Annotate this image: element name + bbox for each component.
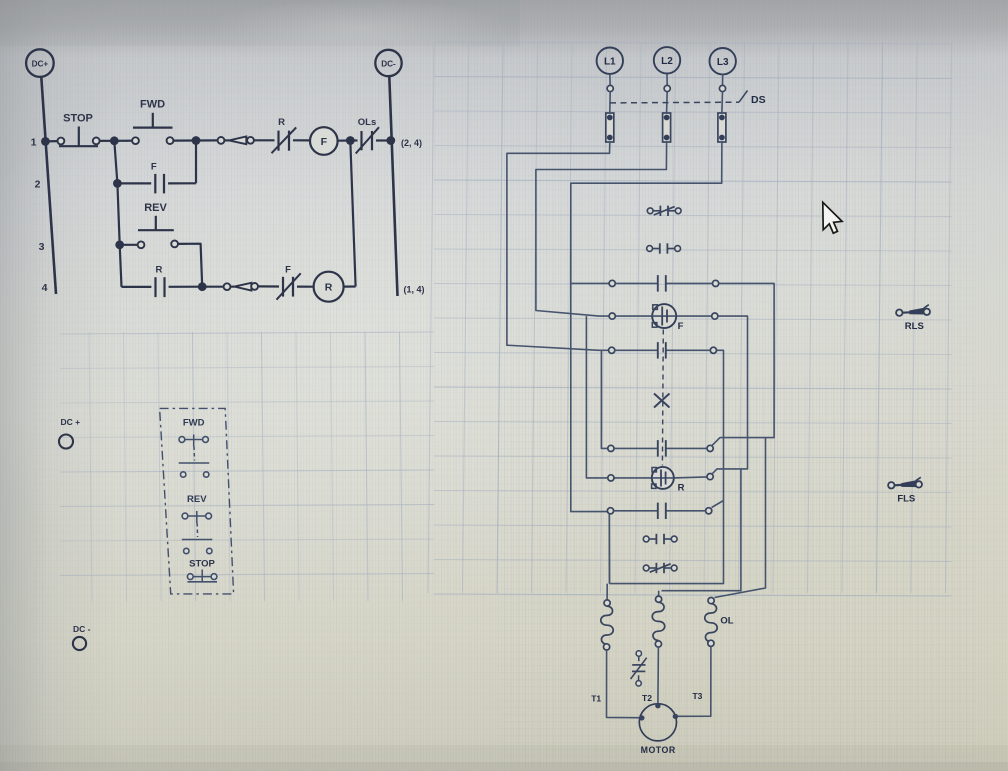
svg-text:OLs: OLs <box>358 117 376 128</box>
svg-text:F: F <box>151 162 157 173</box>
svg-text:DC-: DC- <box>381 60 396 69</box>
svg-text:REV: REV <box>144 202 167 214</box>
svg-text:FWD: FWD <box>140 99 165 111</box>
svg-text:(1, 4): (1, 4) <box>404 285 425 295</box>
svg-text:DC +: DC + <box>61 417 81 427</box>
svg-text:4: 4 <box>42 282 48 294</box>
svg-text:T1: T1 <box>591 694 601 704</box>
svg-text:2: 2 <box>35 179 41 191</box>
svg-text:F: F <box>678 321 684 332</box>
svg-text:L1: L1 <box>604 56 616 67</box>
svg-text:DC+: DC+ <box>32 60 49 69</box>
svg-text:R: R <box>325 282 333 294</box>
svg-text:OL: OL <box>720 616 733 627</box>
svg-text:FWD: FWD <box>183 418 205 429</box>
svg-text:FLS: FLS <box>897 494 915 505</box>
svg-text:RLS: RLS <box>905 321 924 332</box>
svg-text:DS: DS <box>751 94 766 106</box>
svg-text:R: R <box>278 117 285 128</box>
svg-text:1: 1 <box>31 137 37 149</box>
svg-text:3: 3 <box>39 241 45 253</box>
svg-text:REV: REV <box>187 494 207 505</box>
svg-text:T2: T2 <box>642 693 652 703</box>
svg-text:STOP: STOP <box>189 559 215 570</box>
svg-text:L3: L3 <box>717 57 729 68</box>
svg-text:R: R <box>155 265 162 276</box>
svg-text:T3: T3 <box>692 691 702 701</box>
svg-text:DC -: DC - <box>73 624 91 634</box>
svg-text:L2: L2 <box>661 56 673 67</box>
svg-text:F: F <box>285 265 291 276</box>
svg-text:(2, 4): (2, 4) <box>401 138 422 148</box>
svg-text:F: F <box>321 136 328 148</box>
svg-text:MOTOR: MOTOR <box>641 745 676 755</box>
svg-text:STOP: STOP <box>63 113 93 125</box>
svg-text:R: R <box>678 483 685 494</box>
